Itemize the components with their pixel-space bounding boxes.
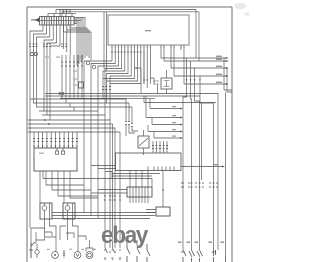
motor M1 (52, 252, 59, 259)
bus to cascade elbows (62, 95, 74, 111)
wire left long drop (29, 99, 31, 228)
wire nested elbows right of X1 (63, 18, 91, 67)
X2 risers (130, 167, 148, 188)
tiny labels upper (45, 57, 49, 58)
X2 hatch (130, 187, 148, 197)
wire pin cascade to mid bundle (84, 50, 141, 248)
right bundle lower ticks (182, 183, 215, 187)
feed risers (146, 96, 154, 138)
sensor circles (86, 61, 90, 65)
wire top feed rail (48, 13, 76, 16)
ticks mid cluster (143, 80, 159, 84)
bus arrows (44, 119, 51, 125)
motor M3 double (86, 252, 93, 259)
wire misc right of X2 (146, 210, 156, 213)
connector X2 box (127, 187, 152, 197)
cascade ticks (102, 87, 111, 90)
tiny loops at rail (59, 92, 61, 94)
ground bars bottom mid (104, 258, 121, 260)
wire X1 risers to top rail (56, 10, 199, 72)
K1 inner marks (56, 151, 59, 154)
left component column F-row ticks (62, 55, 82, 99)
U2 left links (91, 166, 116, 179)
K2 coil circle (42, 206, 47, 211)
connector ticks on left bundle (29, 44, 67, 47)
bottom-left switch S0 (29, 242, 35, 258)
small box B2 (156, 207, 170, 216)
pin id ticks (111, 51, 142, 53)
R-bank ticks (33, 139, 78, 142)
tiny labels col (73, 70, 77, 71)
wire drop elbows to left bundle (30, 31, 60, 120)
switch SW8 (225, 256, 227, 262)
sensor column S (153, 141, 167, 153)
K1 outputs (40, 171, 152, 203)
loop marks (30, 52, 33, 55)
U2 inner bottom stubs (154, 167, 174, 171)
wire right arrow line 5 (184, 50, 228, 84)
bottom bus (52, 213, 155, 219)
ECU main box U1 (108, 15, 189, 45)
switch SW1 (127, 240, 130, 262)
small box K0 (79, 82, 84, 88)
feed arrow c (152, 124, 180, 126)
R-bank arrows (33, 146, 78, 149)
feed arrow b (146, 117, 180, 119)
lines below U2 (112, 174, 160, 177)
relay K2 (40, 203, 52, 219)
bundle ticks (181, 183, 218, 187)
feed arrow d (148, 131, 180, 133)
U2 arrow line right (181, 166, 222, 168)
relay K3 (63, 203, 75, 219)
scan smudge top right (234, 3, 246, 9)
relay outputs down (36, 219, 78, 252)
U1 bottom pins left cluster (112, 45, 150, 50)
small pump P0 (35, 250, 39, 254)
feed arrow a (150, 108, 180, 110)
mid bundle ticks (104, 196, 121, 200)
bottom elbows (31, 226, 86, 258)
fuse ticks (61, 62, 83, 66)
wire pins to mid cluster (144, 50, 150, 84)
wide box U2 (116, 153, 182, 171)
U1 pin arrowheads (111, 47, 151, 49)
small box Q1 (161, 78, 172, 89)
svg-text:ebay: ebay (101, 222, 149, 249)
wire right border stubs (224, 58, 232, 256)
wire rail y102 (144, 96, 216, 103)
arrow A1 into connector (31, 19, 40, 21)
wire right arrow line 3 (171, 50, 228, 68)
feed arrow e (154, 137, 180, 139)
motor M2 (74, 252, 81, 259)
relay box K1 big (34, 148, 77, 171)
connector X1 mid rail (40, 20, 75, 22)
Q1 leads (158, 70, 167, 94)
cluster ticks bus end (125, 122, 133, 127)
label U1 (145, 30, 151, 31)
switch SW3 (147, 244, 150, 262)
bottom mid component row (104, 248, 121, 253)
switch SW5 (189, 250, 195, 262)
border frame left (26, 7, 28, 262)
switch SW4 (181, 250, 186, 262)
U1 bottom pins right cluster (161, 45, 184, 50)
mid cluster Q1 area (136, 50, 154, 94)
wire X1 drops (43, 25, 70, 55)
border frame right (231, 7, 233, 262)
bus stack left horizontals (28, 99, 132, 248)
B2 lead up (162, 171, 164, 208)
wire right arrow line 1 (161, 50, 228, 58)
resistor G1 (63, 250, 65, 257)
X2 left links (91, 190, 127, 194)
wire right arrow line 2 (164, 50, 228, 61)
motor labels (47, 249, 50, 250)
right vertical bundle (183, 58, 214, 250)
long rail y93.5 (45, 94, 218, 251)
wire right arrow line 4 (174, 50, 228, 76)
switch SW6 (197, 250, 203, 262)
transistor T1 (138, 136, 149, 148)
resistor row R-bank (34, 132, 77, 148)
connector X1 row1 cells (42, 17, 71, 26)
connector X1 strip outer (40, 17, 75, 26)
small box on rail (60, 10, 70, 13)
border frame top (27, 6, 232, 8)
switch SW2 (137, 240, 140, 262)
tiny labels bottom (178, 242, 182, 243)
K3 coil circle (65, 206, 70, 211)
X2 pins below (130, 197, 148, 203)
switch SW7 (212, 250, 216, 262)
